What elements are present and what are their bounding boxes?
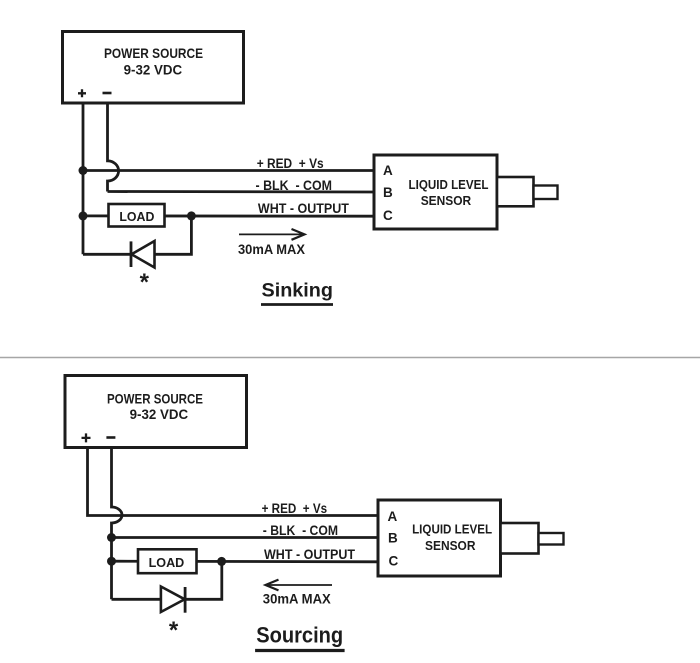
svg-text:LOAD: LOAD [149,555,185,570]
current arrow 30mA (bottom) [266,580,333,591]
wire: -BLK -COM (top) [108,190,375,193]
svg-text:WHT - OUTPUT: WHT - OUTPUT [258,201,350,216]
svg-text:POWER SOURCE: POWER SOURCE [107,391,203,407]
svg-text:Sourcing: Sourcing [256,623,343,648]
svg-text:LOAD: LOAD [119,209,154,224]
svg-text:30mA MAX: 30mA MAX [263,592,331,607]
current arrow 30mA (top) [239,229,305,240]
node: junction -rail/-BLK (bottom) [107,533,116,542]
label 30mA MAX (top) [238,242,305,257]
terminal - (bottom) [106,436,115,439]
label 30mA MAX (bottom) [263,592,331,607]
wire: WHT OUTPUT (bottom) [112,560,380,563]
note asterisk (top) [140,269,150,296]
svg-text:+ RED + Vs: + RED + Vs [262,501,328,516]
diode D1 (top) [131,241,155,268]
wire: - drop with hop over +RED (top) [108,103,119,192]
label WHT - OUTPUT (bottom) [264,547,356,562]
wire: -BLK -COM (bottom) [112,536,380,539]
terminal + (top) [78,89,86,97]
pin B (bottom) [388,531,398,546]
label - BLK - COM (top) [256,178,333,193]
wire: + rail then +RED (bottom) [88,448,380,516]
pin C (top) [383,208,393,223]
wire: - rail with hop over +RED (bottom) [112,448,123,600]
svg-text:C: C [383,208,393,223]
svg-text:*: * [140,269,150,296]
svg-text:- BLK - COM: - BLK - COM [263,523,338,538]
node: junction +rail/WHT (top) [79,211,88,220]
svg-text:LIQUID LEVEL: LIQUID LEVEL [412,522,492,537]
svg-text:A: A [383,163,393,178]
svg-text:SENSOR: SENSOR [421,193,472,208]
svg-text:9-32 VDC: 9-32 VDC [130,406,189,422]
terminal + (bottom) [82,433,91,442]
pin C (bottom) [389,554,399,569]
wire: + rail vertical (top) [82,103,85,254]
svg-text:A: A [388,509,398,524]
svg-text:B: B [383,185,393,200]
wire: +RED +Vs (top) [83,169,374,172]
pin B (top) [383,185,393,200]
note asterisk (bottom) [169,617,179,644]
caption Sourcing [255,623,345,651]
caption Sinking [261,280,333,305]
svg-text:30mA MAX: 30mA MAX [238,242,305,257]
wire: WHT OUTPUT (top) [83,214,374,217]
node: junction +rail/+RED (top) [79,166,88,175]
svg-text:SENSOR: SENSOR [425,538,476,553]
svg-text:LIQUID LEVEL: LIQUID LEVEL [409,177,489,192]
wire: diode branch (bottom) [112,561,222,599]
load box (top) [109,204,165,227]
svg-text:- BLK - COM: - BLK - COM [256,178,333,193]
terminal - (top) [103,92,112,95]
separator line [0,357,700,359]
svg-text:C: C [389,554,399,569]
svg-text:WHT - OUTPUT: WHT - OUTPUT [264,547,356,562]
svg-text:POWER SOURCE: POWER SOURCE [104,45,203,61]
node: junction diode/WHT (bottom) [217,557,226,566]
wire: diode branch (top) [83,216,191,254]
load box (bottom) [138,549,197,573]
label - BLK - COM (bottom) [263,523,338,538]
pin A (bottom) [388,509,398,524]
sensor body fitting large (bottom) [501,523,539,554]
sensor body fitting small (bottom) [539,533,564,545]
svg-text:Sinking: Sinking [262,280,334,302]
power source box (bottom) [65,376,247,448]
node: junction diode/WHT (top) [187,211,196,220]
node: junction -rail/LOAD (bottom) [107,557,116,566]
liquid level sensor box U2 (bottom) [378,500,501,576]
sensor body fitting small (top) [534,186,558,200]
diode D2 (bottom) [161,587,185,613]
svg-text:9-32 VDC: 9-32 VDC [124,62,183,78]
svg-text:*: * [169,617,179,644]
svg-text:B: B [388,531,398,546]
svg-text:+ RED + Vs: + RED + Vs [257,156,324,171]
label + RED + Vs (bottom) [262,501,328,516]
label + RED + Vs (top) [257,156,324,171]
sensor body fitting large (top) [497,177,534,206]
label WHT - OUTPUT (top) [258,201,350,216]
power source box (top) [63,32,244,104]
liquid level sensor box U1 (top) [374,155,497,229]
pin A (top) [383,163,393,178]
